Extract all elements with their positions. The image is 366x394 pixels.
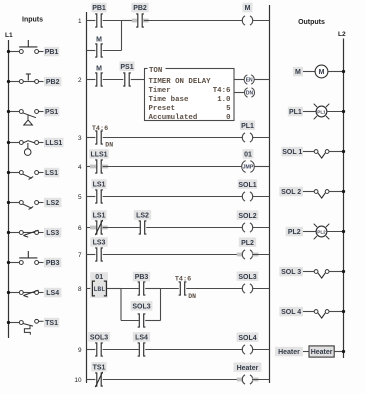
svg-text:M: M bbox=[96, 65, 102, 72]
svg-text:SOL3: SOL3 bbox=[132, 304, 150, 311]
svg-text:PB3: PB3 bbox=[46, 260, 60, 267]
svg-text:01: 01 bbox=[95, 274, 103, 281]
svg-text:LS4: LS4 bbox=[135, 335, 148, 342]
svg-text:LLS1: LLS1 bbox=[90, 152, 107, 159]
svg-text:5: 5 bbox=[226, 105, 231, 113]
svg-text:1: 1 bbox=[78, 18, 82, 25]
svg-text:L2: L2 bbox=[338, 31, 346, 38]
svg-text:LS1: LS1 bbox=[45, 170, 58, 177]
svg-text:SOL2: SOL2 bbox=[238, 213, 256, 220]
svg-text:Heater: Heater bbox=[278, 349, 300, 356]
svg-text:LS3: LS3 bbox=[93, 240, 106, 247]
svg-text:Heater: Heater bbox=[237, 365, 259, 372]
svg-text:5: 5 bbox=[78, 194, 82, 201]
svg-text:SOL3: SOL3 bbox=[90, 335, 108, 342]
svg-text:SOL 3: SOL 3 bbox=[281, 269, 301, 276]
svg-text:SOL 1: SOL 1 bbox=[282, 149, 302, 156]
svg-text:TIMER ON DELAY: TIMER ON DELAY bbox=[149, 78, 212, 86]
svg-text:LBL: LBL bbox=[94, 286, 106, 293]
svg-text:Timer: Timer bbox=[149, 87, 171, 95]
svg-text:TON: TON bbox=[149, 67, 162, 75]
svg-text:PL1: PL1 bbox=[241, 123, 254, 130]
svg-text:T4:6: T4:6 bbox=[175, 275, 191, 283]
svg-text:DN: DN bbox=[188, 293, 196, 300]
svg-text:LS2: LS2 bbox=[136, 213, 149, 220]
svg-text:SOL4: SOL4 bbox=[238, 335, 256, 342]
svg-text:Outputs: Outputs bbox=[298, 19, 325, 26]
svg-text:PL2: PL2 bbox=[317, 229, 326, 234]
svg-text:Time base: Time base bbox=[149, 96, 189, 104]
svg-text:Preset: Preset bbox=[149, 105, 176, 113]
svg-text:Accumulated: Accumulated bbox=[149, 114, 198, 122]
svg-text:PB2: PB2 bbox=[133, 5, 147, 12]
svg-text:LS2: LS2 bbox=[46, 200, 59, 207]
svg-text:PL2: PL2 bbox=[241, 240, 254, 247]
svg-text:1.0: 1.0 bbox=[217, 96, 231, 104]
svg-text:01: 01 bbox=[244, 152, 252, 159]
svg-text:JMP: JMP bbox=[243, 164, 254, 170]
svg-text:LS1: LS1 bbox=[93, 213, 106, 220]
svg-text:6: 6 bbox=[78, 225, 82, 232]
svg-text:PL1: PL1 bbox=[317, 109, 326, 114]
svg-text:PL2: PL2 bbox=[288, 229, 301, 236]
svg-text:4: 4 bbox=[78, 164, 82, 171]
svg-text:PB1: PB1 bbox=[45, 49, 59, 56]
svg-text:TS1: TS1 bbox=[45, 320, 58, 327]
svg-text:T4:6: T4:6 bbox=[213, 87, 231, 95]
svg-text:8: 8 bbox=[78, 286, 82, 293]
svg-text:Heater: Heater bbox=[311, 349, 333, 356]
svg-text:PB2: PB2 bbox=[46, 79, 60, 86]
svg-text:EN: EN bbox=[246, 77, 253, 83]
svg-text:TS1: TS1 bbox=[93, 365, 106, 372]
svg-text:PL1: PL1 bbox=[289, 109, 302, 116]
svg-text:3: 3 bbox=[78, 135, 82, 142]
svg-text:T4:6: T4:6 bbox=[92, 125, 108, 133]
svg-text:PB3: PB3 bbox=[135, 274, 149, 281]
svg-text:10: 10 bbox=[74, 377, 82, 384]
svg-text:SOL1: SOL1 bbox=[238, 182, 256, 189]
svg-text:PS1: PS1 bbox=[120, 64, 133, 71]
svg-text:PB1: PB1 bbox=[92, 5, 106, 12]
svg-text:0: 0 bbox=[226, 114, 231, 122]
svg-text:SOL 4: SOL 4 bbox=[281, 309, 301, 316]
svg-text:M: M bbox=[96, 36, 102, 43]
svg-text:PS1: PS1 bbox=[45, 109, 58, 116]
svg-text:L1: L1 bbox=[5, 32, 13, 39]
svg-text:9: 9 bbox=[78, 347, 82, 354]
svg-text:7: 7 bbox=[78, 252, 82, 259]
svg-text:Inputs: Inputs bbox=[22, 17, 43, 24]
svg-text:LS1: LS1 bbox=[93, 182, 106, 189]
svg-text:LS3: LS3 bbox=[46, 230, 59, 237]
svg-text:M: M bbox=[295, 69, 301, 76]
svg-text:LS4: LS4 bbox=[46, 290, 59, 297]
svg-text:DN: DN bbox=[105, 142, 113, 149]
svg-text:SOL 2: SOL 2 bbox=[281, 189, 301, 196]
svg-text:M: M bbox=[319, 69, 325, 76]
svg-text:SOL3: SOL3 bbox=[238, 274, 256, 281]
svg-text:LLS1: LLS1 bbox=[45, 140, 62, 147]
svg-text:2: 2 bbox=[78, 77, 82, 84]
svg-text:M: M bbox=[245, 5, 251, 12]
svg-text:DN: DN bbox=[246, 90, 254, 96]
